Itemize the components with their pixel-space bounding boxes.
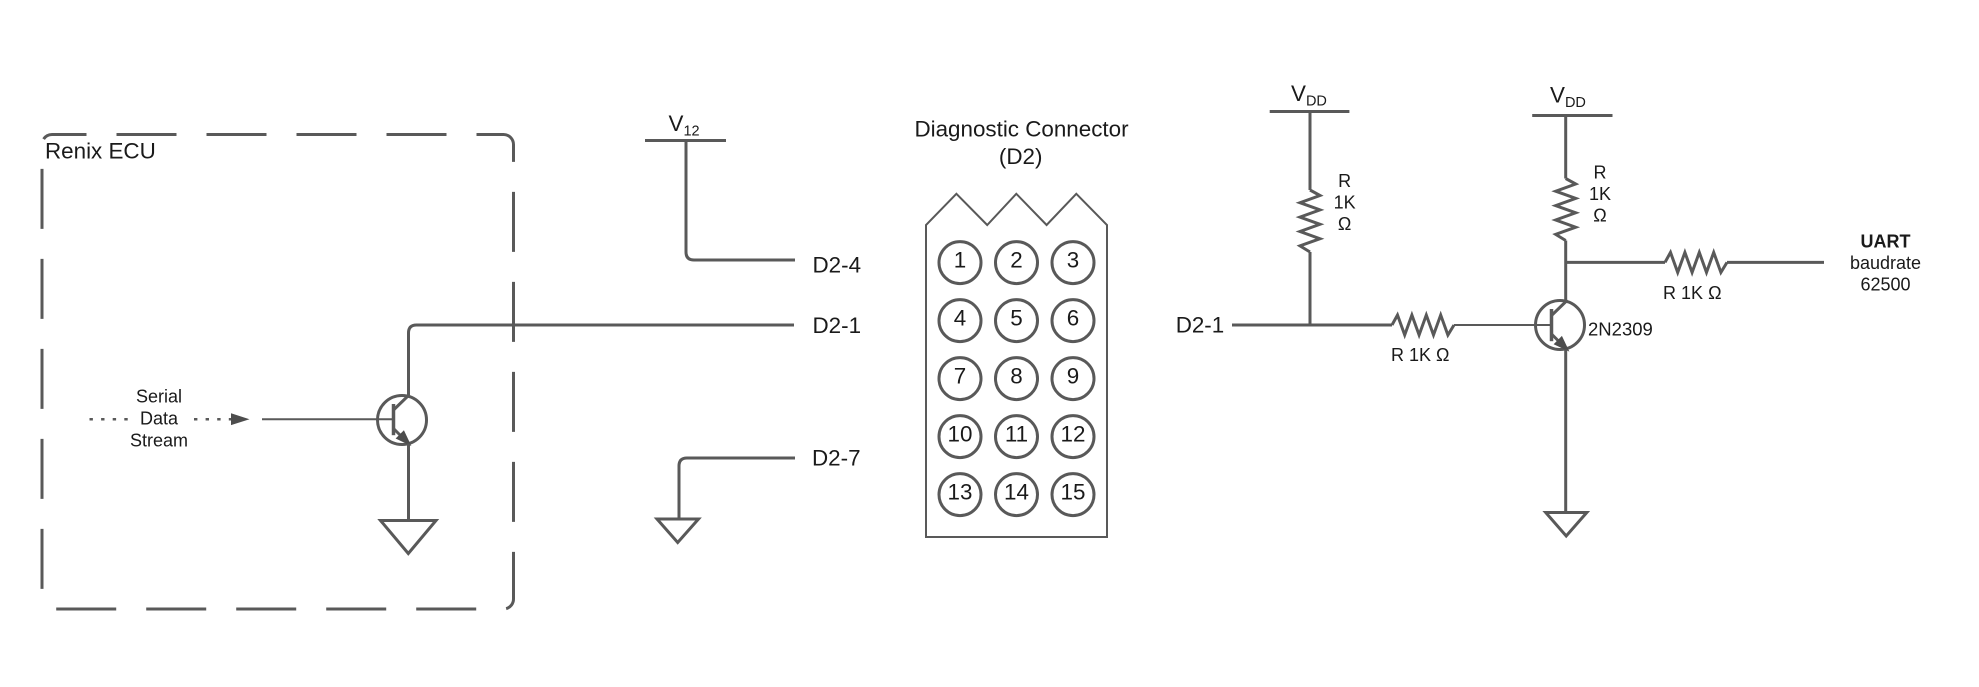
arrowhead Q2 emitter bbox=[1555, 337, 1568, 350]
pin 10 bbox=[939, 416, 981, 458]
svg-text:12: 12 bbox=[1061, 421, 1086, 446]
wire R1 down to D2-1 node bbox=[1309, 252, 1312, 325]
label Diagnostic Connector title bbox=[914, 117, 1129, 169]
power VDD rail bar (left) bbox=[1270, 110, 1350, 113]
wire output node to R4 bbox=[1566, 261, 1665, 264]
pin 4 bbox=[939, 300, 981, 342]
svg-text:UART: UART bbox=[1861, 231, 1911, 251]
pin 14 bbox=[996, 474, 1038, 516]
pin 13 bbox=[939, 474, 981, 516]
pin 12 bbox=[1052, 416, 1094, 458]
power VDD rail bar (right) bbox=[1532, 114, 1612, 117]
svg-text:Ω: Ω bbox=[1593, 206, 1606, 226]
wire R2 to Q2 base bbox=[1454, 324, 1552, 326]
svg-text:62500: 62500 bbox=[1860, 275, 1910, 295]
wire dashed serial-data arrow shaft left part bbox=[90, 418, 129, 421]
pin 15 bbox=[1052, 474, 1094, 516]
wire Q1 collector up and right to D2-1 bbox=[409, 325, 795, 396]
wire D2-1 to R2 bbox=[1232, 324, 1392, 327]
transistor Q1 (NPN in Renix ECU) bbox=[378, 395, 427, 445]
arrowhead of serial data stream bbox=[231, 413, 250, 425]
pin 11 bbox=[996, 416, 1038, 458]
svg-text:D2-7: D2-7 bbox=[812, 445, 861, 470]
wire R3 to Q2 collector through output node bbox=[1564, 241, 1567, 301]
Renix ECU dashed enclosure box bbox=[42, 135, 514, 610]
wire Q2 emitter to ground bbox=[1564, 350, 1567, 512]
svg-text:3: 3 bbox=[1067, 247, 1079, 272]
svg-text:14: 14 bbox=[1004, 479, 1029, 504]
pin 8 bbox=[996, 358, 1038, 400]
pin numbers bbox=[948, 247, 1086, 504]
svg-text:D2-1: D2-1 bbox=[1176, 312, 1225, 337]
svg-text:R: R bbox=[1594, 163, 1607, 183]
pin 6 bbox=[1052, 300, 1094, 342]
arrowhead Q1 emitter bbox=[397, 432, 410, 445]
resistor R3 (collector pull-up) bbox=[1556, 179, 1576, 241]
svg-text:2: 2 bbox=[1010, 247, 1022, 272]
svg-text:Ω: Ω bbox=[1338, 214, 1351, 234]
svg-text:R 1K Ω: R 1K Ω bbox=[1391, 345, 1449, 365]
svg-text:11: 11 bbox=[1005, 421, 1028, 446]
svg-text:1: 1 bbox=[954, 247, 966, 272]
svg-text:4: 4 bbox=[954, 305, 966, 330]
svg-text:1K: 1K bbox=[1334, 192, 1356, 212]
resistor R4 (series output) bbox=[1665, 252, 1727, 272]
svg-text:D2-1: D2-1 bbox=[813, 313, 862, 338]
svg-text:13: 13 bbox=[948, 479, 973, 504]
label Serial Data Stream bbox=[130, 386, 188, 450]
svg-text:2N2309: 2N2309 bbox=[1588, 319, 1653, 340]
wire D2-7 to ground bbox=[679, 458, 795, 518]
svg-text:9: 9 bbox=[1067, 363, 1079, 388]
pin 2 bbox=[996, 242, 1038, 284]
power V12 rail bar bbox=[645, 139, 726, 142]
svg-text:15: 15 bbox=[1061, 479, 1086, 504]
wire VDD to R3 bbox=[1564, 117, 1567, 179]
svg-text:baudrate: baudrate bbox=[1850, 253, 1921, 273]
pin 5 bbox=[996, 300, 1038, 342]
pin 3 bbox=[1052, 242, 1094, 284]
svg-text:Renix ECU: Renix ECU bbox=[45, 139, 156, 164]
wire V12 to D2-4 bbox=[686, 142, 795, 260]
pin 7 bbox=[939, 358, 981, 400]
connector pins 1-15 bbox=[939, 242, 1094, 516]
connector D2 body outline bbox=[926, 194, 1107, 537]
svg-text:6: 6 bbox=[1067, 305, 1079, 330]
resistor R1 (pull-up on D2-1) bbox=[1300, 190, 1320, 252]
svg-text:7: 7 bbox=[954, 363, 966, 388]
label UART baudrate 62500 bbox=[1850, 231, 1921, 294]
pin 9 bbox=[1052, 358, 1094, 400]
ground symbol for D2-7 bbox=[657, 519, 699, 543]
svg-text:10: 10 bbox=[948, 421, 973, 446]
wire VDD to R1 bbox=[1309, 113, 1312, 190]
ground symbol inside ECU bbox=[381, 521, 437, 554]
wire R4 to UART bbox=[1727, 261, 1824, 264]
svg-text:D2-4: D2-4 bbox=[813, 253, 862, 278]
svg-text:Stream: Stream bbox=[130, 430, 188, 450]
svg-text:Serial: Serial bbox=[136, 386, 182, 406]
label R 1K Ω (R3) bbox=[1589, 163, 1611, 226]
pin 1 bbox=[939, 242, 981, 284]
svg-text:1K: 1K bbox=[1589, 184, 1611, 204]
wire Q1 base bbox=[262, 418, 394, 420]
wire Q1 emitter down bbox=[407, 444, 410, 520]
svg-text:R: R bbox=[1338, 171, 1351, 191]
ground symbol for Q2 emitter bbox=[1546, 513, 1587, 537]
svg-text:5: 5 bbox=[1010, 305, 1022, 330]
svg-text:R 1K Ω: R 1K Ω bbox=[1663, 283, 1721, 303]
wire dashed serial-data arrow shaft right part bbox=[194, 418, 231, 421]
svg-text:(D2): (D2) bbox=[999, 144, 1043, 169]
svg-text:8: 8 bbox=[1010, 363, 1022, 388]
svg-text:Data: Data bbox=[140, 408, 179, 428]
label R 1K Ω (R1) bbox=[1334, 171, 1356, 234]
svg-text:Diagnostic Connector: Diagnostic Connector bbox=[914, 117, 1129, 142]
resistor R2 (base resistor) bbox=[1392, 315, 1454, 335]
transistor Q2 2N2309 bbox=[1536, 300, 1585, 350]
